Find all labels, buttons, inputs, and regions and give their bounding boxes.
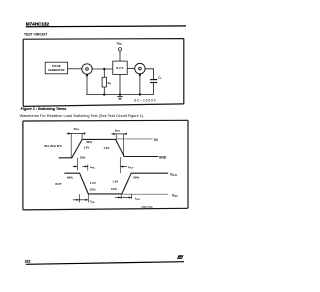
- ground symbol: [117, 97, 123, 100]
- svg-text:1.5V: 1.5V: [83, 145, 89, 149]
- svg-text:1.5V: 1.5V: [104, 146, 110, 150]
- svg-text:1.5V: 1.5V: [112, 179, 118, 183]
- rise time 5ns measure: [67, 127, 86, 158]
- svg-text:2/2: 2/2: [25, 258, 31, 263]
- svg-text:OUT: OUT: [55, 182, 61, 186]
- svg-text:10%: 10%: [111, 187, 117, 191]
- ground rail: [87, 94, 154, 96]
- svg-text:10%: 10%: [90, 187, 96, 191]
- svg-text:D.U.T.: D.U.T.: [116, 66, 124, 70]
- header rule: [26, 25, 186, 28]
- wire J2 down to ground rail: [139, 75, 141, 95]
- svg-text:CBHT06: CBHT06: [141, 205, 153, 209]
- tTLH measure: [115, 194, 140, 201]
- wire PG to coax1: [68, 68, 82, 70]
- tPLH measure: [120, 157, 134, 173]
- tPHL measure: [73, 158, 96, 171]
- fall time 5ns measure: [112, 128, 127, 156]
- node below J2: [139, 74, 141, 76]
- ST logo: [177, 255, 184, 259]
- node J2 ground: [139, 93, 141, 95]
- svg-text:IN A, IN B, IN C: IN A, IN B, IN C: [44, 144, 62, 148]
- svg-text:Waveforms For Resistive Load S: Waveforms For Resistive Load Switching T…: [20, 114, 145, 118]
- VOL level reference line: [123, 193, 169, 195]
- wire DUT output to coax2: [127, 68, 135, 70]
- resistor RT: [102, 69, 112, 95]
- coax connector J2 (output probe): [135, 63, 145, 73]
- figure 2 frame: [23, 120, 188, 210]
- wire coax2 to CL: [145, 69, 154, 79]
- tTHL measure: [73, 194, 96, 204]
- svg-text:TEST CIRCUIT: TEST CIRCUIT: [24, 33, 48, 37]
- 3V level reference line: [117, 138, 153, 140]
- wire J1 down to ground rail: [86, 75, 88, 94]
- svg-text:GENERATOR: GENERATOR: [48, 68, 64, 72]
- svg-text:90%: 90%: [86, 140, 92, 144]
- svg-text:5ns: 5ns: [74, 127, 80, 131]
- output waveform trace: [64, 173, 168, 194]
- svg-text:1.5V: 1.5V: [90, 181, 96, 185]
- coax connector J1 (input probe): [82, 64, 92, 74]
- figure 1 frame: [23, 39, 184, 107]
- svg-text:M74HC132: M74HC132: [26, 22, 50, 27]
- node DUT ground: [119, 93, 121, 95]
- node below J1: [86, 74, 88, 76]
- pulse generator box: [45, 62, 67, 74]
- input waveform trace: [59, 139, 159, 157]
- capacitor CL: [150, 75, 162, 94]
- DUT U1: [113, 61, 127, 74]
- wire coax1 to DUT input: [92, 68, 113, 70]
- svg-text:10%: 10%: [80, 155, 86, 159]
- svg-text:90%: 90%: [133, 175, 139, 179]
- svg-text:90%: 90%: [67, 176, 73, 180]
- svg-text:Figure 2 : Switching Times: Figure 2 : Switching Times: [21, 107, 66, 111]
- Vcc terminal: [117, 41, 123, 61]
- svg-text:SC–16590: SC–16590: [134, 99, 156, 103]
- svg-text:PULSE: PULSE: [52, 64, 61, 68]
- wire DUT to ground: [119, 74, 121, 96]
- footer rule: [26, 262, 184, 265]
- svg-text:5ns: 5ns: [115, 128, 121, 132]
- node input/RT junction: [103, 68, 105, 70]
- svg-text:3V: 3V: [154, 138, 159, 142]
- svg-text:GND: GND: [159, 155, 167, 159]
- node RT ground: [103, 93, 105, 95]
